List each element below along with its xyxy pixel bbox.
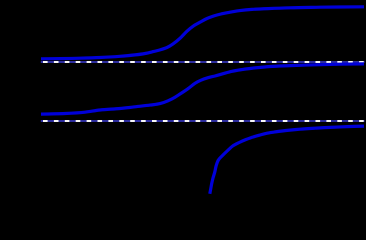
asymptote line 2 white dashes	[41, 120, 365, 122]
asymptote line 1 blue underlay	[41, 61, 365, 63]
asymptote line 2 blue underlay	[41, 120, 365, 122]
curve 1 top sigmoid	[41, 7, 364, 59]
curve 2 middle sigmoid	[41, 64, 364, 114]
asymptote line 1 white dashes	[41, 61, 365, 63]
curve 3 bottom saturating curve	[210, 126, 364, 194]
